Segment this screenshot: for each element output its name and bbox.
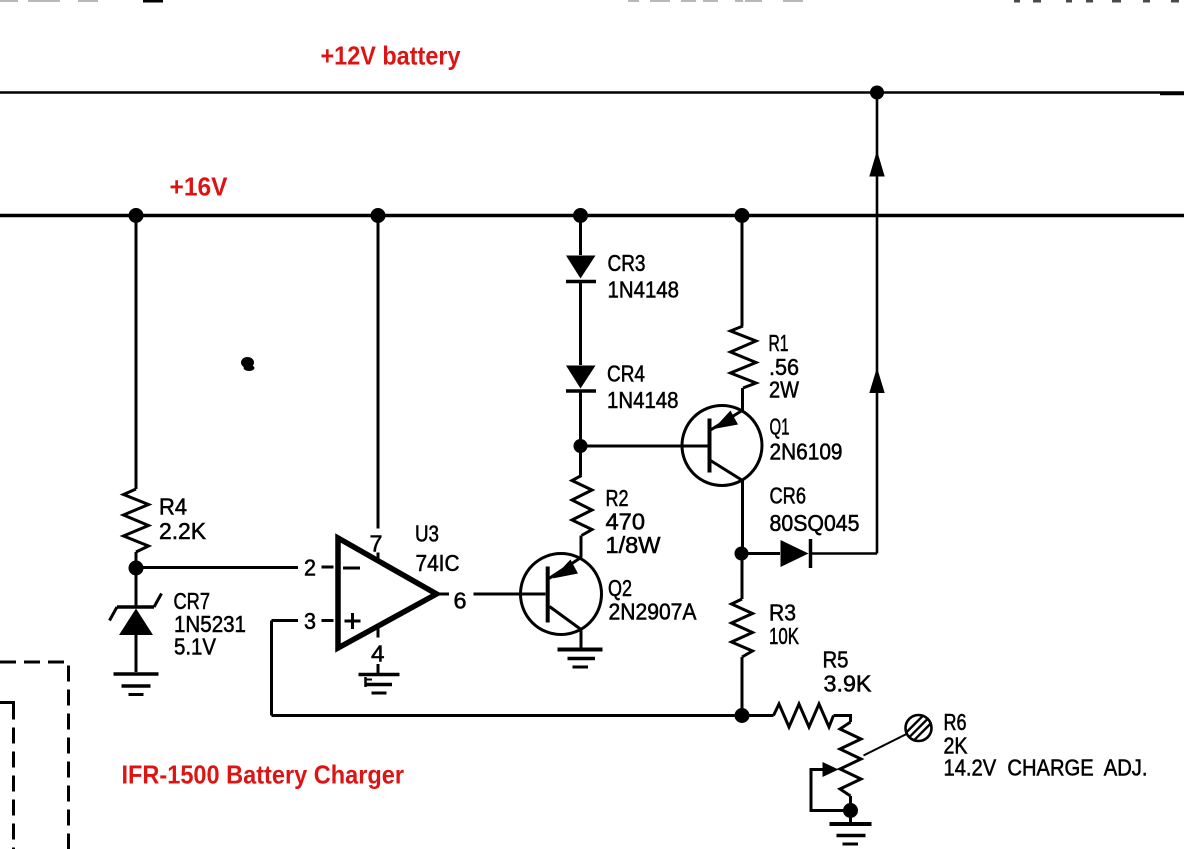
svg-text:6: 6 [454, 588, 467, 614]
svg-text:4: 4 [371, 641, 385, 667]
wire charger output riser (CR6 cathode to +12V bus) [876, 93, 879, 554]
node: R3 / R5 / feedback junction [735, 708, 750, 723]
wire R1 to Q1 emitter [741, 388, 744, 411]
svg-text:IFR-1500 Battery Charger: IFR-1500 Battery Charger [122, 760, 405, 790]
ground (Q2 collector) [558, 650, 603, 668]
wire +16V to R4 [135, 216, 138, 490]
wire U3 pin 7 (from +16V) [377, 216, 380, 529]
wire U3 pin 6 output stub [437, 593, 450, 596]
svg-text:2N6109: 2N6109 [770, 439, 843, 465]
svg-text:U3: U3 [415, 521, 439, 547]
svg-text:3: 3 [304, 608, 316, 634]
op-amp U3 741C [338, 538, 437, 648]
svg-text:74IC: 74IC [416, 550, 460, 576]
resistor R2 [572, 476, 592, 536]
R6 wiper arrow [823, 762, 839, 777]
wire U3 output to Q2 base [474, 593, 546, 596]
wire pin 3 stub [322, 619, 334, 622]
transistor Q2 2N2907A [521, 554, 602, 635]
diode CR6 80SQ045 [781, 539, 811, 568]
current-direction arrowhead (lower) on riser [869, 368, 884, 394]
svg-text:80SQ045: 80SQ045 [770, 510, 860, 536]
resistor R4 [124, 489, 149, 552]
transistor Q1 2N6109 [682, 406, 762, 486]
node: +16V / R1 branch [735, 208, 750, 223]
U3 inverting input minus sign [343, 567, 360, 570]
wire +16V to R1 [741, 216, 744, 327]
node: +16V / U3 pin 7 branch [371, 208, 386, 223]
node: R6 bottom / wiper / ground junction [843, 803, 858, 818]
svg-text:R4: R4 [159, 494, 187, 520]
wire Q2 emitter to R2 [580, 536, 583, 558]
diode CR4 1N4148 [566, 366, 596, 392]
svg-text:3.9K: 3.9K [824, 671, 872, 697]
svg-text:+12V battery: +12V battery [321, 41, 461, 71]
svg-text:+16V: +16V [170, 172, 229, 202]
wire CR6 node to R3 [741, 554, 744, 599]
ground (below CR7) [114, 674, 159, 695]
wire feedback (to R3/R5 node) [272, 714, 743, 717]
screwdriver-adjust symbol (R6) [906, 715, 932, 741]
wire node to R5 [742, 714, 774, 717]
svg-text:470: 470 [606, 509, 646, 535]
node: R4 / CR7 / U3 pin 2 junction [129, 561, 144, 576]
wire CR3 to CR4 [579, 283, 582, 365]
svg-text:2: 2 [304, 555, 316, 581]
resistor R1 [731, 326, 757, 388]
wire node to ground [849, 811, 852, 824]
wire +16V to CR3 [579, 216, 582, 256]
wire pin 2 stub [322, 566, 334, 569]
wire R5 to R6 top (corner) [834, 716, 851, 723]
wire node to CR7 cathode [135, 568, 138, 606]
wire stub at left edge [0, 701, 15, 704]
svg-text:R3: R3 [769, 600, 796, 626]
svg-text:CR6: CR6 [770, 483, 807, 509]
wire node to Q1 base [581, 445, 708, 448]
node: Q1 collector / CR6 / R3 junction [735, 547, 749, 561]
node: +16V / R4 branch [129, 208, 144, 223]
svg-text:2W: 2W [769, 377, 800, 403]
resistor R5 [774, 704, 834, 727]
svg-text:10K: 10K [769, 623, 799, 649]
node: +16V / CR3 branch [573, 208, 588, 223]
node: battery bus / charger output junction [870, 86, 884, 100]
wire U3 pin 3 stub [272, 619, 299, 622]
wire feedback (pin 3 down) [270, 621, 273, 716]
svg-text:1N4148: 1N4148 [607, 387, 679, 413]
U3 non-inverting input plus sign [345, 613, 361, 629]
svg-text:R2: R2 [606, 485, 629, 511]
svg-text:CR4: CR4 [607, 361, 645, 387]
current-direction arrowhead (upper) on riser [869, 151, 884, 177]
svg-text:5.1V: 5.1V [174, 634, 216, 660]
svg-text:1/8W: 1/8W [606, 532, 662, 558]
svg-text:2N2907A: 2N2907A [609, 599, 697, 625]
wire U3 pin 4 [377, 627, 380, 638]
svg-text:7: 7 [370, 531, 383, 557]
dashed enclosure (battery outline, lower left) [0, 662, 69, 849]
wire CR6 cathode to riser [812, 552, 878, 555]
wire wiper to bottom (rheostat connection) [811, 770, 851, 811]
wire Q2 collector to ground [580, 630, 583, 649]
diode CR3 1N4148 [566, 256, 596, 282]
wire R4 to node [135, 552, 138, 568]
svg-text:R1: R1 [769, 330, 789, 356]
svg-text:Q1: Q1 [770, 414, 790, 440]
potentiometer R6 2K (element body) [840, 722, 861, 796]
svg-text:CR3: CR3 [608, 250, 646, 276]
wire +12V battery bus [0, 91, 1184, 94]
leader line from R6 body to adjust symbol [864, 734, 907, 756]
wire R6 bottom to node [849, 796, 852, 811]
resistor R3 [732, 599, 753, 657]
ground (U3 pin 4) [359, 675, 400, 694]
wire +16V bus [0, 214, 1184, 217]
ground (R6) [830, 824, 872, 844]
wire node to CR6 anode [742, 552, 781, 555]
zener diode CR7 1N5231 5.1V [110, 594, 162, 673]
svg-text:14.2V CHARGE ADJ.: 14.2V CHARGE ADJ. [944, 755, 1148, 781]
node: CR4 / R2 / Q1 base junction [574, 439, 588, 453]
svg-text:R5: R5 [823, 647, 849, 673]
wire node to U3 pin 2 [136, 566, 298, 569]
wire Q1 collector to CR6 node [741, 480, 744, 554]
svg-text:1N4148: 1N4148 [608, 277, 680, 303]
wire R3 to feedback node [741, 657, 744, 716]
svg-text:Q2: Q2 [608, 575, 632, 601]
wire CR4 to Q1 base node [579, 393, 582, 447]
svg-text:2.2K: 2.2K [159, 518, 206, 544]
wire R2 top to Q1 base node [579, 446, 582, 476]
svg-text:R6: R6 [944, 709, 967, 735]
